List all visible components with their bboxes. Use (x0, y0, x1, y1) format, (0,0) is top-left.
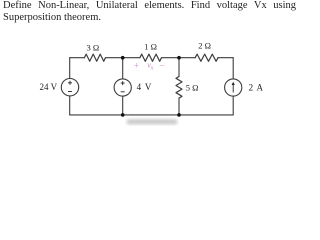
wire top between 3ohm and node A (106, 57, 140, 59)
node B junction dot (177, 56, 181, 60)
wire 5ohm branch lower (178, 98, 180, 115)
wire top-left segment (70, 57, 85, 59)
wire 4V branch upper (122, 58, 124, 79)
wire 5ohm branch upper (178, 58, 180, 77)
wire top between 1ohm and node B (162, 57, 196, 59)
wire top-right segment (218, 57, 233, 59)
current source I1 2A circle (225, 79, 242, 96)
svg-text:24 V: 24 V (40, 82, 58, 92)
polarity marks inside 24V source (68, 81, 72, 92)
resistor R 3ohm zigzag (84, 54, 105, 61)
svg-text:+: + (134, 61, 139, 71)
wire 4V branch lower (122, 96, 124, 115)
vx polarity labels (pink) (134, 60, 165, 71)
voltage source V1 24V circle (61, 79, 78, 96)
svg-text:x: x (150, 65, 154, 71)
polarity marks inside 4V source (121, 81, 125, 92)
node A junction dot (121, 56, 125, 60)
node C junction dot (121, 113, 125, 117)
wire bottom (70, 114, 234, 116)
node D junction dot (177, 113, 181, 117)
svg-text:4 V: 4 V (137, 82, 152, 92)
wire left branch lower (69, 96, 71, 115)
svg-text:–: – (159, 60, 165, 70)
current source arrow (232, 82, 235, 93)
svg-text:5 Ω: 5 Ω (186, 82, 199, 92)
resistor R 2ohm zigzag (195, 54, 218, 61)
svg-text:3 Ω: 3 Ω (87, 42, 100, 52)
faint smudge artifact below bottom wire (127, 119, 177, 124)
resistor R 1ohm zigzag (140, 54, 162, 61)
voltage source V2 4V circle (114, 79, 131, 96)
problem statement text (3, 0, 296, 23)
wire left branch upper (69, 58, 71, 79)
svg-text:2 Ω: 2 Ω (198, 40, 211, 50)
wire right branch upper (232, 58, 234, 79)
svg-text:1 Ω: 1 Ω (144, 42, 157, 52)
svg-text:2 A: 2 A (249, 82, 264, 92)
resistor R 5ohm vertical zigzag (176, 77, 182, 99)
wire right branch lower (232, 96, 234, 115)
